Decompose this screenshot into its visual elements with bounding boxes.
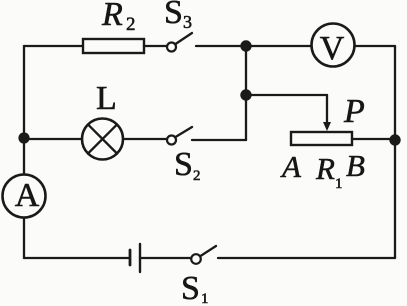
- svg-text:S: S: [181, 270, 200, 306]
- wire node to wiper corner: [246, 94, 327, 96]
- lamp L: [82, 119, 123, 160]
- svg-text:S: S: [174, 146, 193, 183]
- label R2: [101, 0, 136, 35]
- wire S3 to node: [196, 45, 246, 47]
- wire rheostat to right rail: [352, 138, 395, 140]
- resistor R2: [83, 39, 144, 53]
- wire battery to S1: [140, 257, 191, 259]
- label P: [343, 93, 365, 130]
- node junction top: [240, 40, 251, 51]
- label R1: [315, 151, 343, 192]
- svg-text:L: L: [96, 80, 117, 117]
- wire lamp to S2: [123, 138, 167, 140]
- wire node to voltmeter: [246, 45, 312, 47]
- wiper P arrow: [323, 95, 331, 131]
- svg-text:A: A: [15, 177, 40, 214]
- voltmeter V: [312, 24, 355, 68]
- svg-text:2: 2: [193, 168, 201, 184]
- svg-text:1: 1: [335, 176, 343, 192]
- svg-text:S: S: [164, 0, 183, 31]
- svg-text:V: V: [320, 30, 345, 67]
- node junction middle: [240, 89, 251, 100]
- label L: [96, 80, 117, 117]
- wire R2 to S3: [144, 45, 167, 47]
- wire right vertical: [394, 46, 396, 258]
- wire top-left horizontal to R2: [24, 45, 83, 47]
- svg-text:R: R: [101, 0, 123, 33]
- wire left vertical lower segment: [23, 218, 25, 258]
- switch S1: [191, 246, 216, 264]
- label A (rheostat left end): [280, 149, 302, 184]
- svg-text:2: 2: [126, 14, 136, 35]
- battery cell: [130, 244, 140, 272]
- wire S2 to middle vertical: [192, 139, 246, 141]
- wire S1 to bottom-right corner: [218, 257, 395, 259]
- switch S2: [167, 127, 192, 145]
- label S1: [181, 270, 209, 306]
- switch S3: [167, 33, 192, 52]
- svg-text:1: 1: [201, 291, 209, 306]
- node junction right (rheostat to right rail): [389, 134, 400, 145]
- wire left vertical upper segment: [23, 46, 25, 174]
- ammeter A: [3, 175, 46, 218]
- svg-text:A: A: [280, 149, 302, 184]
- wire bottom-left to battery: [24, 257, 129, 259]
- svg-text:R: R: [315, 151, 335, 186]
- label S3: [164, 0, 192, 32]
- wire voltmeter to right corner: [355, 45, 395, 47]
- label S2: [174, 146, 201, 184]
- wire middle vertical: [245, 46, 247, 140]
- rheostat R1: [291, 132, 352, 145]
- svg-text:3: 3: [183, 12, 192, 32]
- svg-text:P: P: [343, 93, 365, 130]
- node junction lamp branch: [18, 132, 29, 143]
- label B (rheostat right end): [346, 148, 365, 183]
- wire node to lamp: [24, 138, 82, 140]
- svg-text:B: B: [346, 148, 365, 183]
